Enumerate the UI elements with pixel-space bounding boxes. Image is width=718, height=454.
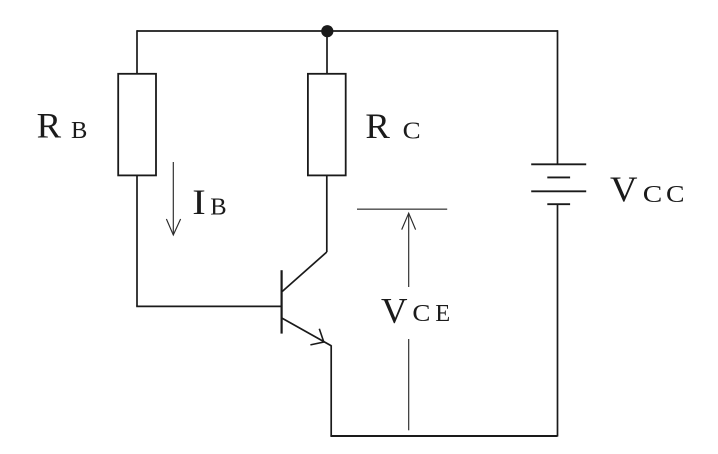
transistor Q1 collector diagonal <box>282 252 327 292</box>
wire emitter drop <box>330 345 332 436</box>
svg-text:C: C <box>403 118 421 145</box>
battery VCC plate short upper <box>547 176 570 178</box>
svg-text:B: B <box>71 117 87 144</box>
measure VCE lower line <box>408 339 410 430</box>
svg-text:R: R <box>37 106 62 146</box>
battery VCC plate long top <box>531 163 586 165</box>
label RB <box>37 106 88 146</box>
measure VCE top tick <box>357 208 447 210</box>
wire right rail upper <box>557 30 559 164</box>
label VCC <box>610 169 685 209</box>
arrow IB <box>166 162 180 235</box>
battery VCC plate long bottom <box>531 190 586 192</box>
wire base horizontal <box>136 305 281 307</box>
resistor RB <box>118 74 156 176</box>
svg-text:R: R <box>365 106 390 146</box>
battery VCC plate short lower <box>547 203 570 205</box>
svg-text:B: B <box>210 194 226 221</box>
wire RC top from node <box>326 30 328 74</box>
label VCE <box>381 290 450 330</box>
svg-text:V: V <box>381 290 408 330</box>
transistor Q1 emitter diagonal <box>282 318 331 346</box>
svg-text:E: E <box>435 300 450 327</box>
svg-text:C: C <box>412 300 430 327</box>
wire right rail lower <box>557 204 559 436</box>
svg-text:C: C <box>643 181 663 208</box>
transistor Q1 base bar <box>281 270 283 333</box>
wire bottom rail <box>330 435 557 437</box>
resistor RC <box>308 74 346 176</box>
wire left drop to RB <box>136 30 138 74</box>
wire RC bottom (collector lead vertical) <box>326 175 328 252</box>
svg-text:I: I <box>192 182 206 222</box>
svg-text:V: V <box>610 169 638 209</box>
label RC <box>365 106 420 146</box>
node junction dot <box>321 25 333 37</box>
wire RB bottom to base <box>136 175 138 306</box>
transistor Q1 emitter arrowhead <box>310 329 323 345</box>
svg-text:C: C <box>666 181 685 208</box>
label IB <box>192 182 226 222</box>
wire top rail <box>137 30 558 32</box>
measure VCE up arrow <box>402 213 416 287</box>
